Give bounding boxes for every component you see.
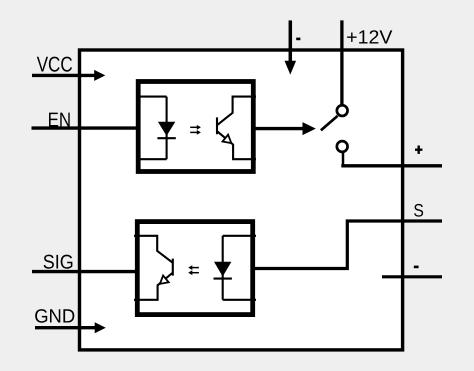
- U2 light coupling arrows: [190, 125, 201, 135]
- LED D2: [214, 262, 232, 279]
- optocoupler U2 box: [138, 82, 253, 172]
- svg-text:VCC: VCC: [37, 53, 73, 77]
- wire SIG input: [32, 270, 140, 273]
- wire minus output stub: [382, 275, 442, 278]
- wire 12V return down-arrow: [285, 20, 297, 74]
- svg-text:S: S: [413, 201, 424, 221]
- svg-text:+12V: +12V: [346, 27, 393, 48]
- U3 light coupling arrows: [188, 265, 199, 275]
- U3 LED anode/cathode rails: [223, 236, 256, 300]
- label minus right: [414, 266, 419, 269]
- label plus output: [415, 146, 422, 154]
- module box U1: [80, 50, 403, 350]
- label minus top: [296, 38, 300, 41]
- wire U2 output arrow to switch: [252, 122, 316, 135]
- svg-text:GND: GND: [34, 307, 75, 328]
- switch SW1 lever: [321, 116, 338, 130]
- LED D1: [157, 122, 175, 138]
- wire EN input: [32, 126, 141, 129]
- wire GND input with arrow: [35, 322, 106, 333]
- switch SW1 top terminal: [337, 105, 348, 116]
- switch SW1 bottom terminal: [337, 141, 348, 152]
- wire U3 output to S: [251, 221, 443, 269]
- U2 LED anode/cathode rails: [137, 97, 167, 160]
- wire switch to plus output: [341, 152, 442, 167]
- phototransistor Q1: [217, 97, 256, 160]
- wire VCC input with arrow: [32, 70, 105, 81]
- wire +12V supply: [340, 20, 343, 104]
- phototransistor Q2: [134, 236, 173, 300]
- optocoupler U3 box: [137, 222, 252, 315]
